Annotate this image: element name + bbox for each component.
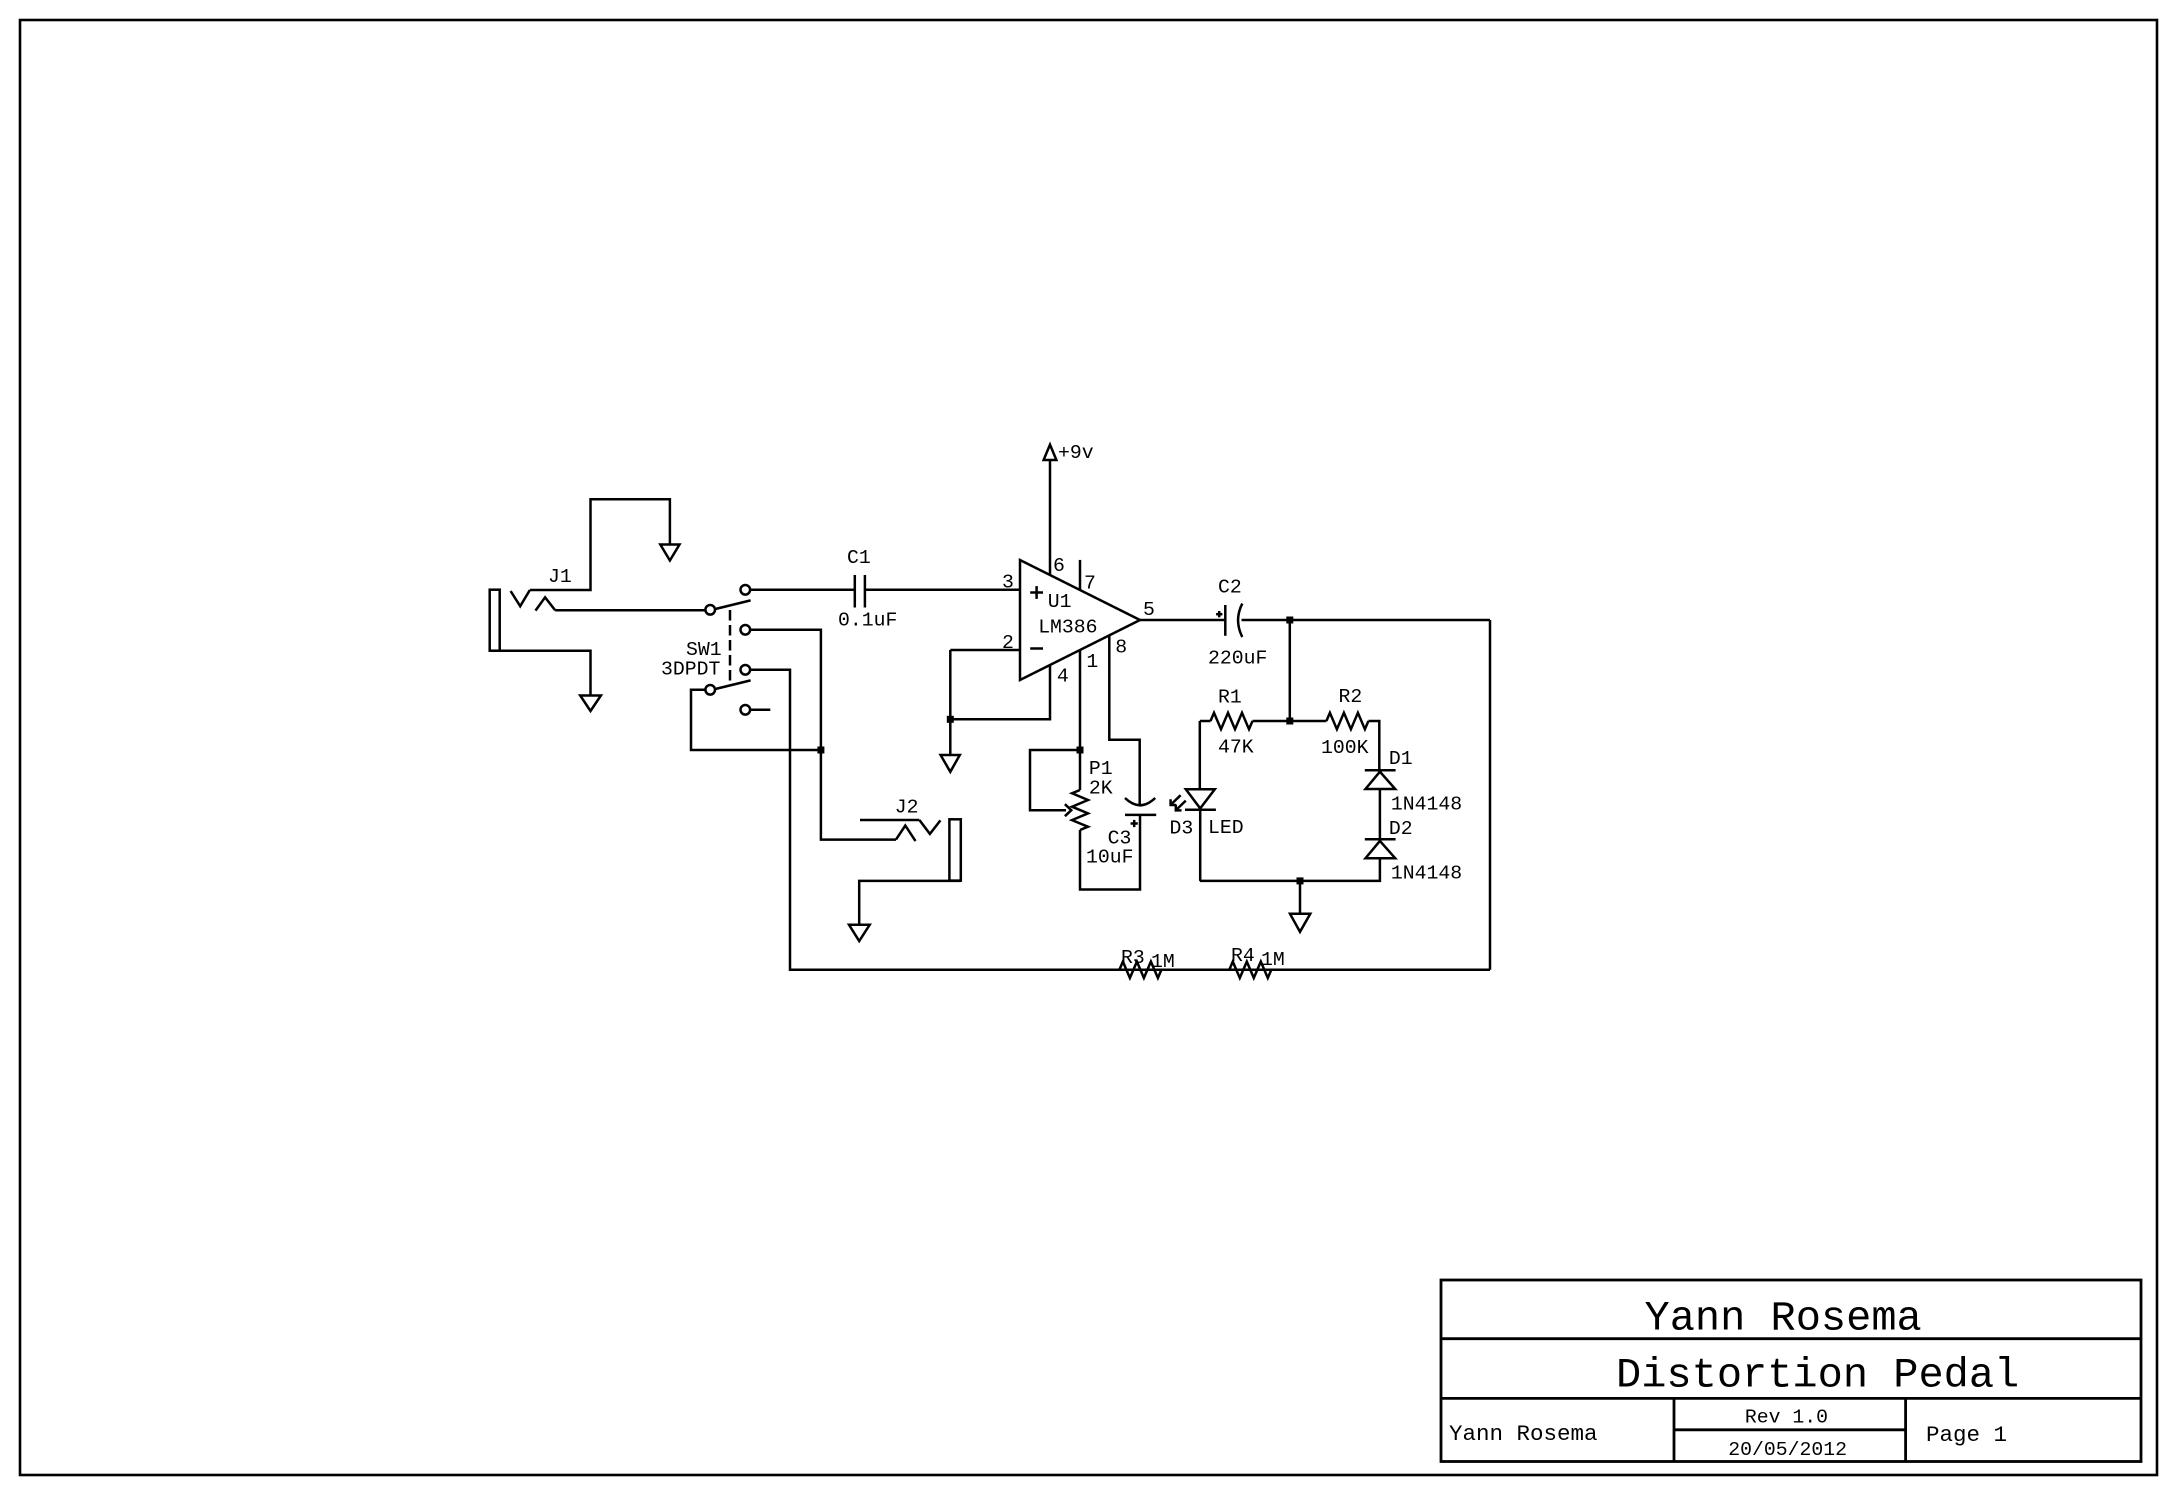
svg-text:5: 5 [1143, 599, 1155, 621]
svg-text:D3: D3 [1170, 817, 1194, 839]
svg-text:LED: LED [1208, 817, 1244, 839]
svg-text:LM386: LM386 [1038, 617, 1097, 639]
svg-text:R2: R2 [1339, 686, 1363, 708]
svg-text:1M: 1M [1151, 951, 1175, 973]
svg-text:Rev 1.0: Rev 1.0 [1745, 1407, 1828, 1429]
svg-text:47K: 47K [1218, 737, 1254, 759]
svg-text:R1: R1 [1218, 687, 1242, 709]
svg-text:0.1uF: 0.1uF [838, 609, 897, 631]
svg-text:100K: 100K [1321, 737, 1369, 759]
svg-text:U1: U1 [1048, 591, 1072, 613]
svg-text:C1: C1 [847, 547, 871, 569]
svg-text:Yann Rosema: Yann Rosema [1449, 1421, 1598, 1447]
svg-text:D2: D2 [1389, 818, 1413, 840]
svg-text:6: 6 [1053, 555, 1065, 577]
svg-text:Page 1: Page 1 [1926, 1422, 2007, 1448]
svg-text:20/05/2012: 20/05/2012 [1728, 1439, 1847, 1461]
svg-text:3DPDT: 3DPDT [661, 659, 720, 681]
svg-text:2: 2 [1002, 632, 1014, 654]
svg-text:D1: D1 [1389, 748, 1413, 770]
svg-text:4: 4 [1057, 666, 1069, 688]
svg-text:10uF: 10uF [1086, 846, 1133, 868]
svg-text:J2: J2 [895, 797, 919, 819]
svg-text:7: 7 [1084, 573, 1096, 595]
svg-text:R4: R4 [1231, 945, 1255, 967]
svg-text:Distortion Pedal: Distortion Pedal [1616, 1352, 2019, 1400]
svg-text:J1: J1 [548, 566, 572, 588]
svg-text:Yann Rosema: Yann Rosema [1645, 1295, 1922, 1343]
svg-text:1N4148: 1N4148 [1391, 863, 1462, 885]
svg-text:1: 1 [1086, 651, 1098, 673]
svg-text:1N4148: 1N4148 [1391, 794, 1462, 816]
svg-text:3: 3 [1002, 572, 1014, 594]
svg-text:1M: 1M [1261, 949, 1285, 971]
svg-text:220uF: 220uF [1208, 647, 1267, 669]
svg-text:+9v: +9v [1058, 442, 1094, 464]
svg-text:2K: 2K [1089, 778, 1113, 800]
svg-text:C2: C2 [1218, 577, 1242, 599]
svg-text:R3: R3 [1121, 947, 1145, 969]
svg-text:8: 8 [1115, 637, 1127, 659]
svg-text:P1: P1 [1089, 758, 1113, 780]
